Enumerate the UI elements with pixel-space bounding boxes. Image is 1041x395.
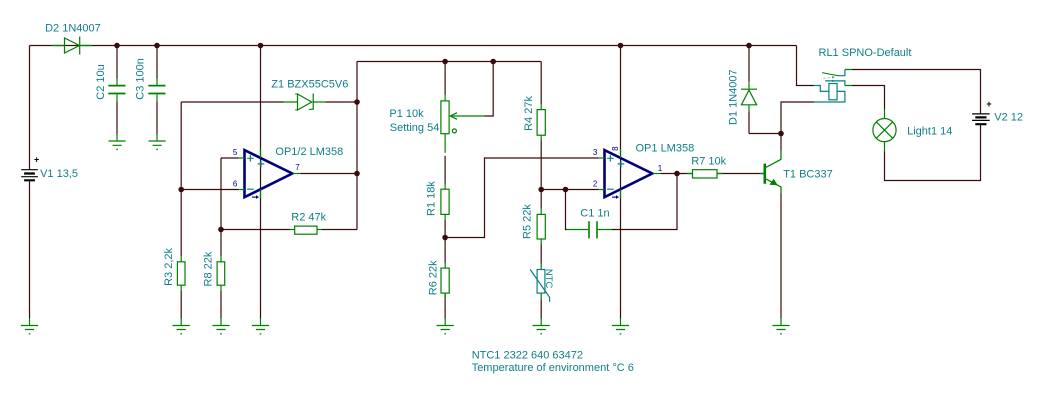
svg-text:C3 100n: C3 100n (135, 58, 147, 100)
thermistor NTC (530, 264, 550, 302)
wire relay coil return to collector (781, 102, 814, 134)
svg-text:5: 5 (233, 148, 238, 157)
junction node V+ at D1 (746, 43, 752, 49)
ground (OP1/2 supply) (252, 318, 269, 334)
capacitor C2 (108, 79, 125, 142)
junction node R1 R6 pin3 (442, 235, 448, 241)
resistor R3 (177, 262, 185, 285)
diode D2 (52, 37, 93, 55)
wire P1 to R1 (444, 156, 446, 184)
wire pin2 row (541, 189, 598, 191)
ground (OP1 supply) (612, 318, 629, 334)
junction node T1 collector D1 RL1 (778, 131, 784, 137)
wire Z1-left riser down to R3 (180, 102, 182, 319)
svg-text:V1 13,5: V1 13,5 (40, 168, 78, 180)
junction node zener cathode (354, 99, 360, 105)
junction node pin6 R3 (178, 187, 184, 193)
svg-text:Temperature of environment °C: Temperature of environment °C 6 (472, 362, 634, 374)
wire pin3 net (445, 158, 598, 238)
wire T1 collector riser (780, 134, 782, 151)
svg-text:C2 10u: C2 10u (95, 64, 107, 99)
svg-text:R7 10k: R7 10k (691, 155, 726, 167)
wire riser x356 output node (356, 62, 358, 230)
ground (R6) (437, 318, 454, 334)
potentiometer P1 (441, 95, 484, 153)
svg-text:7: 7 (295, 163, 300, 172)
wire relay NO contact to V2 (852, 70, 981, 115)
resistor R8 (217, 262, 225, 285)
diode D1 (741, 82, 757, 112)
relay RL1 contact (822, 70, 852, 86)
wire C3 column (156, 46, 158, 135)
capacitor C1 (567, 221, 613, 238)
op-amp output lead OP1 (652, 173, 660, 175)
wire R2 row (221, 229, 357, 231)
wire P1 top lead (444, 62, 446, 95)
svg-text:V2 12: V2 12 (994, 111, 1023, 123)
ground (T1 emitter) (772, 318, 789, 334)
svg-text:OP1/2 LM358: OP1/2 LM358 (275, 146, 343, 158)
resistor R4 (537, 104, 545, 141)
capacitor C3 (148, 79, 165, 142)
svg-text:R2 47k: R2 47k (291, 212, 326, 224)
svg-text:3: 3 (593, 148, 598, 157)
op-amp U1 OP1/2 LM358 (239, 149, 293, 199)
junction node V+ at OP1/2 supply (258, 43, 264, 49)
lamp Light1 (873, 109, 896, 152)
wire V2 bottom to lamp bottom (885, 125, 981, 181)
junction node pin5 R8 R2 (218, 227, 224, 233)
transistor Q1 T1 BC337 (760, 151, 782, 194)
wire Z1 row (181, 101, 357, 103)
svg-text:R1 18k: R1 18k (425, 181, 437, 216)
wire out1 to R7 (661, 173, 764, 175)
resistor R2 (290, 226, 323, 234)
junction node OP1/2 output (354, 171, 360, 177)
svg-text:1: 1 (658, 164, 663, 173)
junction node Vref at P1 top (442, 59, 448, 65)
battery V2 (972, 114, 990, 124)
wire OP1/2 supply column (260, 46, 262, 319)
wire R4 column (540, 62, 542, 188)
svg-text:Z1 BZX55C5V6: Z1 BZX55C5V6 (271, 79, 348, 91)
junction node Vref at P1 wiper (490, 59, 496, 65)
junction node V+ at C3 (154, 43, 160, 49)
wire OP1 supply column (620, 46, 622, 319)
ground (R8) (212, 318, 229, 334)
svg-text:R6 22k: R6 22k (427, 260, 439, 295)
svg-text:6: 6 (233, 180, 238, 189)
wire P1 wiper riser (484, 62, 493, 117)
junction node pin2 C1 (563, 187, 569, 193)
ground (NTC) (533, 318, 550, 334)
zener Z1 (284, 94, 326, 111)
svg-text:NTC: NTC (543, 269, 554, 289)
wire left rail to V1 (29, 46, 31, 319)
svg-text:NTC1 2322 640 63472: NTC1 2322 640 63472 (472, 350, 583, 362)
svg-text:R5 22k: R5 22k (522, 204, 534, 239)
wire pin5 lead (221, 157, 239, 159)
svg-text:T1 BC337: T1 BC337 (783, 169, 833, 181)
wire R5 to NTC column (540, 190, 542, 319)
svg-text:R4 27k: R4 27k (523, 96, 535, 131)
wire pin7 out (301, 173, 358, 175)
svg-text:2: 2 (593, 180, 598, 189)
wire rail2 to P1/R4 (357, 61, 541, 63)
junction node OP1 output C1 (674, 171, 680, 177)
junction node V+ at OP1 supply (618, 43, 624, 49)
ground (C3) (149, 141, 166, 149)
op-amp U2 OP1 LM358 (599, 149, 653, 199)
resistor R5 (537, 209, 545, 245)
ground (C2) (109, 141, 126, 149)
svg-text:R8 22k: R8 22k (203, 251, 215, 286)
svg-text:Light1 14: Light1 14 (907, 126, 952, 138)
junction node pin2 R4 R5 (538, 187, 544, 193)
wire top rail V+ (30, 45, 797, 47)
ground (R3) (173, 318, 190, 334)
svg-text:D2 1N4007: D2 1N4007 (45, 23, 101, 35)
wire C1 net (566, 174, 678, 230)
wire R1 bottom to R6 (444, 220, 446, 319)
relay RL1 coil (814, 84, 845, 103)
ground (V1) (21, 318, 38, 334)
svg-text:8: 8 (611, 146, 620, 151)
junction node V+ at C2 (114, 43, 120, 49)
resistor R1 (441, 184, 449, 221)
wire D1 anode to collector node (749, 133, 781, 135)
wire pin6 row (181, 189, 238, 191)
svg-text:C1 1n: C1 1n (580, 207, 609, 219)
wire R8 column (220, 230, 222, 319)
svg-text:+: + (986, 99, 991, 109)
wire relay coil feed (797, 46, 814, 86)
svg-text:+: + (34, 155, 39, 165)
wire relay common to lamp (852, 86, 885, 110)
wire D1 column (748, 46, 750, 134)
svg-text:P1 10k: P1 10k (389, 108, 424, 120)
wire T1 emitter down (780, 194, 782, 319)
svg-text:R3 2,2k: R3 2,2k (163, 247, 175, 285)
wire C2 column (116, 46, 118, 135)
svg-text:RL1 SPNO-Default: RL1 SPNO-Default (819, 47, 912, 59)
op-amp output lead OP1/2 (292, 173, 300, 175)
resistor R7 (687, 170, 723, 178)
wire pin5 riser (220, 158, 222, 230)
svg-text:D1 1N4007: D1 1N4007 (727, 69, 739, 125)
resistor R6 (441, 263, 449, 299)
battery V1 (21, 170, 38, 181)
svg-text:OP1 LM358: OP1 LM358 (636, 143, 695, 155)
svg-text:Setting 54: Setting 54 (390, 122, 440, 134)
